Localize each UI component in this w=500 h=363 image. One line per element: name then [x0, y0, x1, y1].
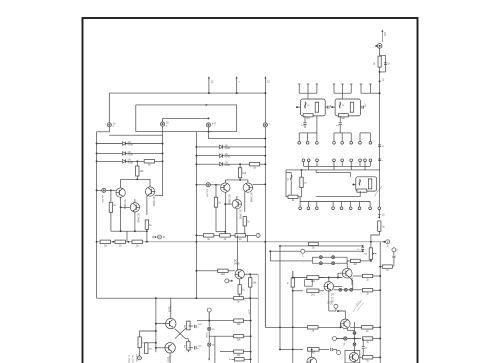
- transistor Q7: [235, 270, 244, 279]
- power connector J1: [377, 44, 382, 49]
- xdot row emitter: [334, 289, 363, 291]
- relay K3: [356, 177, 377, 191]
- transistor Q1: [116, 188, 125, 197]
- wire extra pins down: [360, 132, 370, 134]
- capacitor C17: [393, 252, 395, 256]
- svg-text:BC 556B: BC 556B: [123, 200, 126, 210]
- rail x265 turn: [264, 242, 266, 327]
- svg-text:4148: 4148: [128, 161, 134, 164]
- resistor R8: [145, 220, 148, 229]
- wire hline338: [334, 338, 361, 340]
- rail x258: [257, 274, 259, 363]
- wire bus hA: [304, 165, 371, 167]
- wire step bus: [136, 131, 237, 133]
- node drop rail x196: [195, 132, 197, 299]
- resistor R22: [368, 179, 371, 189]
- wire hline327 right: [350, 326, 356, 328]
- wire R7 bottom: [110, 212, 112, 231]
- svg-text:4148: 4148: [128, 144, 134, 147]
- wire left res feed: [140, 331, 156, 337]
- wire T2 base: [156, 347, 165, 349]
- capacitor C13 parallel: [380, 55, 386, 72]
- svg-text:BC 546B: BC 546B: [250, 193, 253, 203]
- wire R27 to trimmer: [360, 260, 371, 262]
- resistor R30: [249, 274, 251, 278]
- transistor Q3: [130, 203, 139, 212]
- resistor R17: [303, 114, 313, 117]
- resistor R15: [235, 234, 246, 237]
- capacitor C16: [188, 347, 193, 349]
- wire x node top: [186, 328, 189, 330]
- wire Q4 emitter: [224, 192, 226, 231]
- diode D2: [123, 151, 126, 155]
- capacitor C10: [339, 116, 341, 122]
- wire Q1 base: [97, 189, 116, 191]
- svg-text:2x 1N4148: 2x 1N4148: [128, 355, 130, 363]
- resistor R46: [308, 326, 319, 329]
- wire Q7 right: [244, 273, 258, 275]
- capacitor C12 rail: [378, 159, 381, 161]
- wire Q1 emitter: [120, 197, 122, 231]
- wire right stub group: [298, 84, 300, 93]
- wire emitter res: [353, 275, 356, 277]
- handwriting annotation 2: [353, 300, 364, 312]
- wire Q9 emitter: [350, 278, 353, 282]
- terminal C: [301, 249, 305, 253]
- wire K1 pins down: [299, 132, 317, 134]
- handwriting annotation 1: [375, 187, 382, 197]
- wire Q8 emitter: [328, 290, 330, 291]
- transistor Q4: [221, 183, 230, 192]
- wire base line Q7: [196, 270, 235, 272]
- wire Q8 base left: [319, 277, 325, 279]
- contact circles row3: [299, 207, 302, 210]
- wire mid bus 1: [196, 146, 265, 148]
- resistor R47: [362, 326, 373, 330]
- rail right main: [379, 93, 381, 207]
- xdot G1: [208, 327, 211, 330]
- rail x96 lower: [96, 242, 98, 298]
- wire row2 line: [196, 234, 256, 236]
- wire hline349 right: [319, 348, 329, 350]
- resistor R27: [347, 260, 350, 262]
- wire collector tie left: [121, 178, 150, 180]
- capacitor C4: [263, 122, 270, 127]
- wire hline320b: [208, 312, 210, 321]
- wire Q3 base: [121, 206, 131, 208]
- transistor Q9 power: [342, 268, 352, 278]
- resistor R19: [338, 114, 348, 117]
- resistor R36: [234, 335, 244, 338]
- terminal 3: [392, 248, 396, 252]
- wire hline y245.9: [280, 245, 363, 247]
- svg-text:C: C: [302, 255, 304, 258]
- left col x354: [354, 322, 356, 363]
- resistor R12: [243, 217, 246, 226]
- relay K2: [335, 99, 360, 116]
- svg-text:D: D: [158, 235, 160, 239]
- terminal G: [334, 304, 338, 308]
- wire Q6 emitter: [236, 209, 238, 236]
- wire stub363: [362, 352, 364, 358]
- resistor R43: [362, 289, 372, 292]
- svg-text:BC: BC: [327, 301, 329, 305]
- wire bus hC: [316, 171, 350, 173]
- wire right stub group3: [360, 84, 362, 93]
- terminal 2: [383, 241, 385, 243]
- power stub A2: [236, 77, 238, 93]
- transistor T2: [165, 343, 175, 353]
- rail x380 low: [379, 242, 381, 363]
- xdot G2: [208, 343, 211, 346]
- resistor R14: [220, 234, 231, 237]
- resistor R48: [362, 337, 372, 340]
- wire hline336: [215, 335, 234, 337]
- wire pins line2: [300, 201, 370, 203]
- junction dots bus: [112, 241, 114, 243]
- rail x265: [264, 93, 266, 123]
- wire Q6 collector: [236, 196, 238, 199]
- resistor R37: [234, 350, 244, 353]
- terminal F: [207, 308, 211, 312]
- wire F down3: [208, 347, 210, 358]
- wire line2: [163, 117, 209, 119]
- resistor R9: [250, 163, 260, 166]
- svg-text:1k5: 1k5: [242, 172, 247, 175]
- wire C2 stub up: [162, 118, 164, 122]
- pin tick K3 left: [352, 184, 355, 186]
- terminal E: [225, 279, 229, 283]
- svg-text:26C: 26C: [330, 301, 332, 306]
- resistor R24: [378, 56, 381, 67]
- terminal H: [332, 337, 336, 341]
- wire left bus 1: [97, 143, 163, 145]
- wire Q6 base: [225, 203, 232, 205]
- wire Q8 base to Qa: [334, 285, 343, 287]
- contact circles row2: [302, 159, 305, 162]
- svg-text:TONE: TONE: [205, 332, 207, 339]
- wire collector tie mid: [225, 179, 248, 181]
- wire Q2 collector right: [155, 195, 163, 197]
- wire Q9 base: [338, 272, 342, 274]
- svg-text:BC 556B: BC 556B: [228, 195, 231, 205]
- wire C3 stub: [208, 127, 210, 132]
- resistor R10: [239, 163, 241, 165]
- wire x node bottom: [186, 338, 189, 340]
- wire Q8 emitter down: [328, 290, 330, 311]
- wire left drop: [108, 93, 110, 123]
- svg-text:10u 50V: 10u 50V: [206, 189, 208, 198]
- transistor Q2: [145, 187, 154, 196]
- wire main bus: [97, 241, 387, 243]
- capacitor C9: [304, 116, 306, 122]
- rail x292 low: [292, 287, 294, 363]
- power stub A3: [264, 77, 266, 93]
- capacitor C14: [361, 248, 364, 250]
- wire Q12 stub: [311, 349, 313, 357]
- wire Q4 base: [196, 184, 220, 186]
- svg-text:4148: 4148: [225, 147, 231, 150]
- resistor R34: [145, 343, 148, 354]
- svg-text:4148: 4148: [225, 164, 231, 167]
- wire Q3 emitter: [134, 212, 136, 231]
- transistor Q6: [232, 199, 241, 208]
- wire bus hB: [286, 169, 380, 171]
- wire mid emitter bus: [216, 231, 225, 233]
- resistor R31: [187, 321, 190, 330]
- border frame: [83, 18, 418, 363]
- svg-text:1N: 1N: [212, 345, 215, 347]
- resistor R7: [110, 190, 112, 202]
- relay K1: [301, 99, 326, 116]
- resistor R18: [350, 102, 353, 112]
- capacitor C11 rail: [378, 145, 381, 147]
- terminal 1: [256, 233, 260, 237]
- trimmer P1: [370, 242, 372, 248]
- diode D8: [339, 102, 341, 109]
- wire hline y251.2: [270, 250, 362, 252]
- rail left drop: [155, 298, 157, 352]
- wire left bus 3: [97, 160, 163, 162]
- resistor R23: [357, 189, 367, 192]
- box Q11: [345, 350, 360, 363]
- pin tick K2 left: [331, 106, 335, 108]
- wire Q10 collector: [338, 311, 345, 319]
- svg-text:T2656: T2656: [167, 306, 169, 313]
- wire T1 collector: [170, 298, 172, 318]
- wire R29 bottom: [239, 294, 241, 298]
- svg-text:4148: 4148: [128, 153, 134, 156]
- wire mid emitter drop: [224, 232, 226, 236]
- transistor T1: [166, 318, 176, 328]
- svg-text:4k7: 4k7: [306, 117, 311, 120]
- resistor R16: [315, 102, 318, 112]
- transistor Q11: [349, 352, 358, 361]
- resistor R13: [203, 234, 214, 237]
- wire hline320: [197, 320, 234, 322]
- wire sub left edge: [285, 170, 287, 197]
- capacitor C15: [188, 325, 193, 327]
- resistor R26: [308, 242, 318, 245]
- resistor R50: [308, 348, 320, 352]
- svg-text:4u7: 4u7: [212, 121, 217, 125]
- wire Q2 emitter: [146, 195, 148, 215]
- contact box2: [305, 280, 313, 287]
- resistor R1: [100, 240, 111, 243]
- wire rail J1 down: [379, 48, 381, 55]
- svg-text:4148: 4148: [225, 156, 231, 159]
- svg-text:Ge 0,3V: Ge 0,3V: [131, 355, 133, 363]
- transistor Q12: [307, 357, 317, 363]
- xdots box: [319, 256, 322, 259]
- wire sub conn: [290, 181, 292, 196]
- wire hline351: [220, 351, 234, 353]
- wire T2 collector down: [169, 353, 171, 363]
- resistor R3: [132, 240, 143, 243]
- wire R8 bottom: [146, 229, 148, 242]
- capacitor C5: [102, 188, 106, 192]
- capacitor C2: [161, 121, 170, 128]
- diode D4: [220, 145, 223, 149]
- wire rail down2: [379, 67, 381, 93]
- resistor R41: [307, 276, 319, 280]
- wire K2 pins down: [334, 132, 351, 134]
- resistor R44: [362, 274, 372, 277]
- power stub A1: [208, 77, 210, 93]
- wire F down2: [208, 331, 210, 342]
- svg-text:546B: 546B: [234, 263, 240, 266]
- contact box: [312, 257, 347, 263]
- resistor R40: [291, 278, 294, 287]
- resistor R45: [382, 265, 392, 268]
- wire F down: [208, 312, 210, 327]
- arrow on feed: [205, 104, 208, 106]
- contact circles row1: [298, 141, 301, 144]
- svg-text:10u 63V: 10u 63V: [135, 354, 137, 362]
- bottom bus left: [97, 297, 259, 299]
- pin tick K1 left: [296, 106, 301, 108]
- wire mid bus 2: [196, 155, 265, 157]
- wire emitter bus: [111, 230, 147, 232]
- wire pin stubs row3: [299, 202, 301, 207]
- diode D5: [220, 154, 223, 158]
- wire left bus 2: [97, 152, 163, 154]
- wire right stub group2: [333, 84, 335, 93]
- wire hline277 left: [292, 271, 294, 278]
- rail x250: [250, 298, 252, 363]
- resistor R49: [362, 356, 372, 359]
- wire rail low: [378, 210, 380, 218]
- resistor R20: [300, 177, 303, 188]
- wire top bus V+: [109, 92, 265, 94]
- label power: [381, 30, 383, 42]
- transistor Q5: [243, 183, 252, 192]
- wire Q3 collector: [134, 199, 136, 203]
- resistor R33: [138, 337, 141, 348]
- capacitor C18: [362, 339, 364, 346]
- resistor R39: [234, 297, 244, 300]
- svg-text:BC 546B: BC 546B: [152, 197, 155, 207]
- transistor Q8: [324, 282, 334, 292]
- resistor R11: [215, 185, 217, 197]
- transistor Q10: [341, 319, 351, 329]
- svg-text:D: D: [163, 235, 165, 239]
- svg-text:10u 63V: 10u 63V: [101, 195, 103, 204]
- wire hline349: [280, 348, 303, 350]
- wire x215: [209, 336, 215, 363]
- diode D10: [359, 179, 361, 186]
- cross coupling X: [175, 329, 186, 339]
- wire hline277: [293, 277, 343, 279]
- wire drop to main bus: [126, 231, 128, 242]
- diode D1: [123, 142, 126, 146]
- wire hline291: [293, 290, 303, 292]
- rail x280: [279, 246, 281, 350]
- svg-text:1k5: 1k5: [140, 170, 145, 173]
- wire left step to rail: [97, 127, 110, 242]
- wire mid line4: [209, 132, 266, 139]
- wire Q7 emitter: [239, 279, 241, 285]
- rail x265 horiz: [265, 326, 340, 328]
- diode D6: [220, 162, 223, 166]
- svg-text:BC 546B: BC 546B: [239, 210, 242, 220]
- resistor R35: [234, 319, 244, 322]
- svg-text:+12V: +12V: [248, 309, 250, 315]
- terminal I: [337, 351, 341, 355]
- svg-text:T2656: T2656: [166, 356, 168, 363]
- wire Q9 collector: [346, 263, 348, 268]
- wire vlink x270: [269, 251, 271, 261]
- wire C2 down: [162, 126, 164, 196]
- wire right res feed: [146, 341, 156, 344]
- wire Q10 base: [340, 324, 342, 328]
- svg-text:+: +: [229, 357, 231, 361]
- resistor R29: [238, 285, 241, 294]
- wire hline357: [360, 356, 362, 358]
- wire Q5 collector right: [253, 183, 266, 185]
- wire Q8 top: [328, 278, 330, 282]
- capacitor C3: [206, 121, 216, 127]
- resistor R2: [115, 240, 126, 243]
- capacitor C7: [325, 106, 327, 108]
- resistor R6: [136, 160, 138, 162]
- wire rail step: [371, 231, 379, 242]
- capacitor C8: [360, 106, 363, 108]
- svg-text:2k2: 2k2: [221, 273, 226, 276]
- diode D7: [304, 102, 306, 109]
- svg-text:12V: 12V: [383, 32, 385, 37]
- wire mid feed: [136, 105, 237, 132]
- wire bracket mid: [316, 196, 360, 198]
- resistor R5: [144, 160, 155, 163]
- wire link v362: [362, 246, 364, 247]
- capacitor C1: [107, 121, 116, 128]
- wire left hline3: [109, 134, 162, 136]
- svg-text:1k0: 1k0: [311, 293, 316, 296]
- resistor R42: [307, 289, 319, 293]
- wire hline291 right: [319, 290, 324, 292]
- wire T1 base: [156, 323, 166, 325]
- capacitor C6: [206, 183, 210, 187]
- capacitor C19: [331, 348, 333, 351]
- wire row2 drop: [247, 235, 249, 241]
- svg-text:1N: 1N: [212, 329, 215, 331]
- svg-text:1k0: 1k0: [311, 280, 316, 283]
- wire Q7 collector: [236, 235, 238, 269]
- wire Q10 emitter: [347, 328, 349, 330]
- wire Q5 emitter: [244, 191, 246, 212]
- terminal D: [154, 236, 157, 238]
- diode D3: [123, 159, 126, 163]
- wire feed drop left: [135, 105, 137, 132]
- resistor R25: [378, 221, 381, 231]
- wire R12 bottom: [244, 226, 246, 235]
- resistor R21: [288, 195, 298, 198]
- wire mid bus 3: [196, 163, 265, 165]
- rail x292: [292, 271, 294, 278]
- wire hline y260.9: [270, 260, 312, 262]
- resistor R32: [187, 341, 190, 350]
- resistor R28: [218, 269, 228, 272]
- svg-text:BC 546B: BC 546B: [137, 213, 140, 223]
- diode D9: [290, 174, 292, 181]
- terminal J2: [139, 348, 141, 356]
- svg-text:4k7: 4k7: [341, 117, 346, 120]
- wire row2 stubs: [303, 162, 305, 167]
